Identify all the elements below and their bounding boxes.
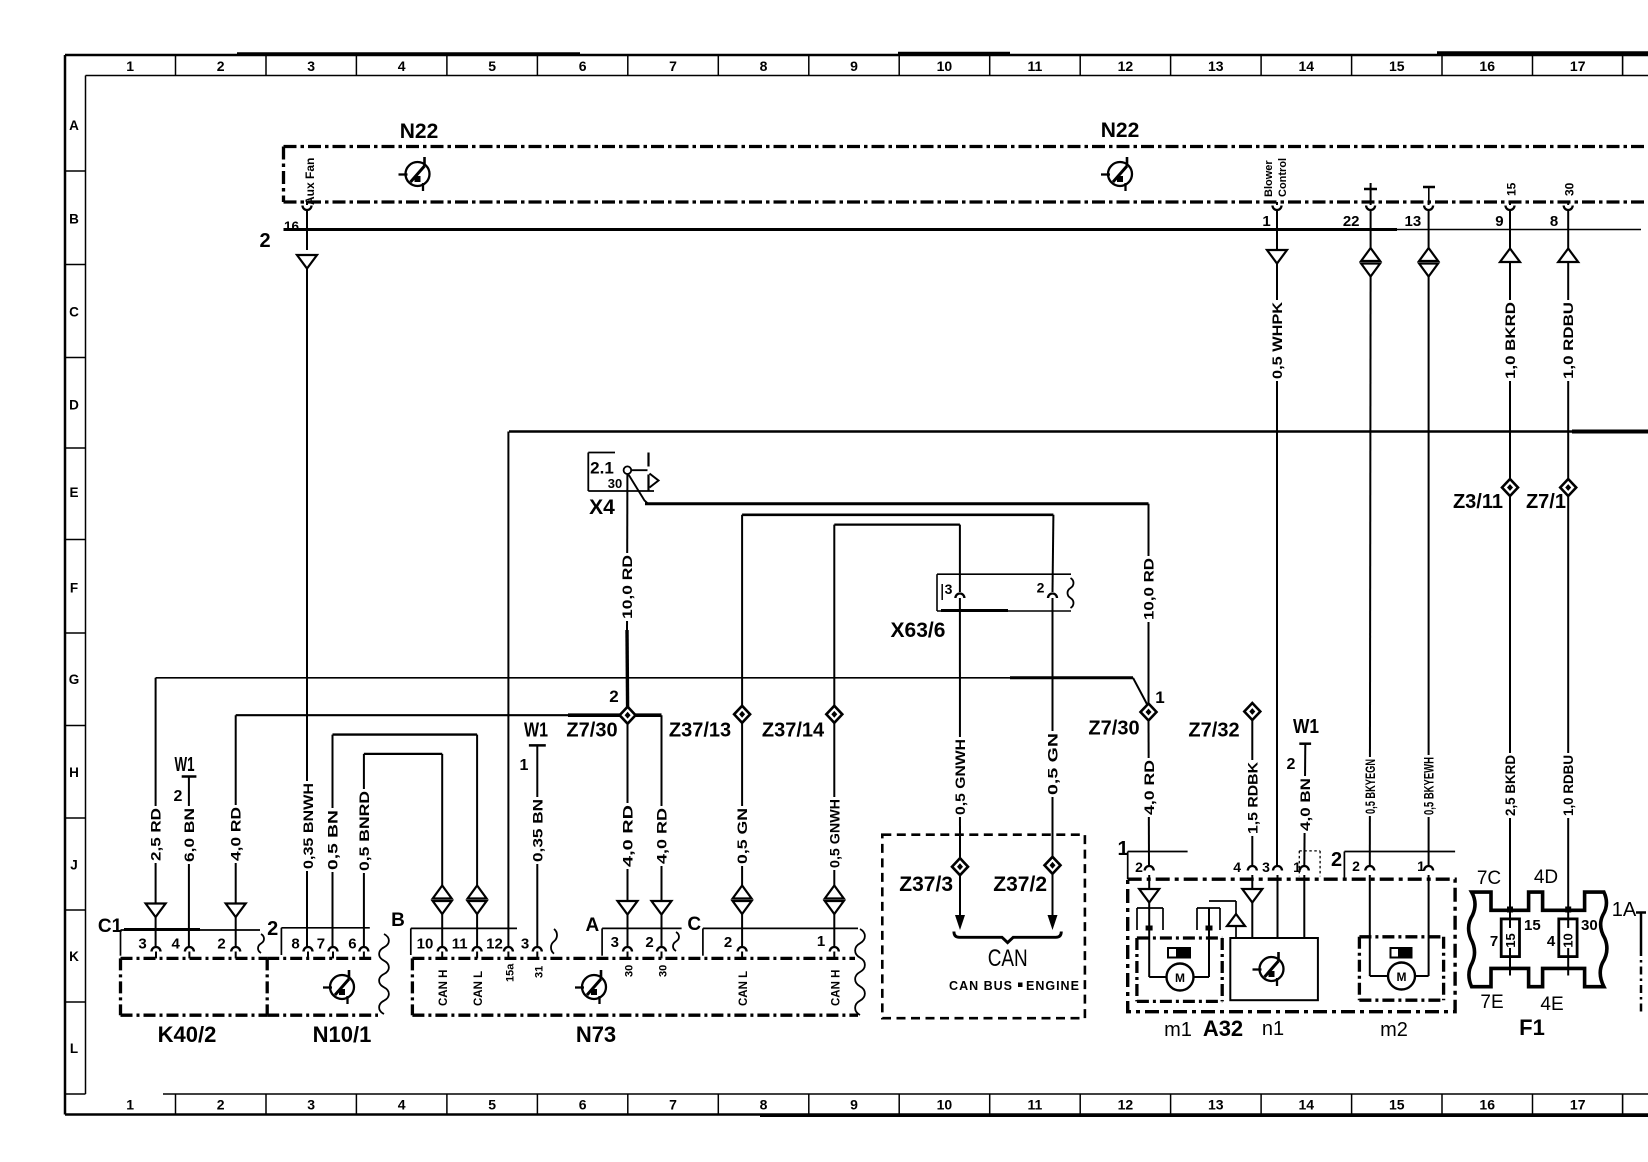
svg-text:Z3/11: Z3/11 [1453,491,1503,513]
svg-text:6: 6 [579,58,587,74]
svg-text:7: 7 [317,936,325,953]
svg-text:X4: X4 [589,496,615,519]
svg-text:Z7/30: Z7/30 [566,720,617,742]
svg-text:N10/1: N10/1 [313,1022,372,1047]
svg-text:CAN L: CAN L [738,971,750,1006]
svg-text:9: 9 [850,1097,858,1113]
svg-text:4: 4 [398,1097,406,1113]
svg-text:Z7/32: Z7/32 [1188,720,1239,742]
svg-text:N73: N73 [576,1022,616,1047]
svg-text:2: 2 [174,788,183,805]
svg-text:30: 30 [1563,182,1577,196]
svg-text:30: 30 [1581,917,1598,934]
svg-text:3: 3 [1262,859,1270,875]
svg-text:15a: 15a [505,963,517,982]
svg-text:16: 16 [284,219,300,234]
svg-text:1,0 RDBU: 1,0 RDBU [1561,302,1576,379]
svg-text:2: 2 [1331,849,1342,871]
svg-text:C1: C1 [98,916,123,937]
svg-text:G: G [69,672,80,687]
svg-text:8: 8 [1550,213,1558,230]
svg-text:7: 7 [1490,933,1498,950]
svg-text:F1: F1 [1519,1015,1545,1040]
svg-text:CAN H: CAN H [438,970,450,1006]
svg-text:0,5 GN: 0,5 GN [1046,733,1061,795]
svg-text:2: 2 [1352,858,1360,874]
svg-text:3: 3 [307,1097,315,1113]
svg-text:A: A [69,118,79,133]
svg-text:15: 15 [1389,58,1405,74]
svg-text:1: 1 [1155,688,1164,707]
svg-text:M: M [1397,970,1407,984]
svg-text:E: E [69,485,78,500]
svg-text:D: D [69,398,79,413]
svg-text:Z7/30: Z7/30 [1088,718,1139,740]
svg-text:22: 22 [1343,213,1360,230]
svg-text:0,35 BN: 0,35 BN [530,799,545,862]
svg-text:14: 14 [1299,58,1315,74]
svg-text:12: 12 [1118,1097,1134,1113]
svg-text:4E: 4E [1540,994,1563,1015]
svg-text:9: 9 [850,58,858,74]
svg-text:2: 2 [217,936,225,953]
svg-text:K40/2: K40/2 [158,1022,217,1047]
svg-text:16: 16 [1479,58,1495,74]
svg-text:2: 2 [1287,756,1296,773]
svg-text:10: 10 [417,936,434,953]
svg-text:4: 4 [1233,859,1241,875]
svg-text:0,5 BN: 0,5 BN [326,810,341,870]
svg-text:4D: 4D [1534,867,1558,888]
svg-text:7E: 7E [1480,992,1503,1013]
svg-text:8: 8 [760,58,768,74]
svg-text:0,5 BKYEWH: 0,5 BKYEWH [1422,757,1437,815]
svg-text:10: 10 [937,58,953,74]
svg-text:L: L [70,1041,78,1056]
svg-text:Blower: Blower [1263,160,1275,197]
svg-text:X63/6: X63/6 [891,619,946,642]
svg-text:3: 3 [521,936,529,953]
svg-text:W1: W1 [524,720,548,742]
svg-text:10,0 RD: 10,0 RD [620,555,635,619]
svg-text:30: 30 [658,965,670,977]
svg-text:2: 2 [609,687,618,706]
svg-text:1: 1 [520,757,529,774]
svg-text:2: 2 [724,934,732,951]
svg-text:N22: N22 [1101,119,1140,142]
svg-text:F: F [70,581,78,596]
svg-text:10: 10 [1561,933,1576,947]
svg-text:2: 2 [645,934,653,951]
svg-text:ENGINE: ENGINE [1026,979,1080,993]
svg-text:K: K [69,949,79,964]
svg-text:11: 11 [1027,1097,1042,1113]
svg-text:M: M [1175,971,1185,985]
svg-text:A32: A32 [1203,1016,1243,1041]
svg-text:0,5 WHPK: 0,5 WHPK [1270,302,1285,379]
svg-text:CAN: CAN [988,945,1028,972]
svg-text:2: 2 [217,1097,225,1113]
svg-text:13: 13 [1208,58,1224,74]
svg-text:CAN BUS: CAN BUS [949,979,1013,993]
svg-text:3: 3 [945,581,953,597]
svg-text:0,5 GN: 0,5 GN [735,808,750,864]
svg-text:9: 9 [1495,213,1503,230]
svg-text:6: 6 [348,936,356,953]
svg-text:1,0 RDBU: 1,0 RDBU [1561,755,1576,816]
svg-text:2: 2 [259,230,270,252]
svg-text:2: 2 [1135,859,1143,875]
svg-text:15: 15 [1503,933,1518,947]
svg-text:5: 5 [488,58,496,74]
svg-text:N22: N22 [400,120,439,143]
svg-text:4,0 RD: 4,0 RD [229,807,244,861]
svg-text:2,5 RD: 2,5 RD [149,808,164,861]
svg-text:4: 4 [172,936,181,953]
svg-text:J: J [70,858,78,873]
svg-text:17: 17 [1570,58,1586,74]
svg-text:4,0 RD: 4,0 RD [621,805,636,867]
svg-text:4: 4 [398,58,406,74]
svg-text:3: 3 [138,936,146,953]
svg-text:7: 7 [669,1097,677,1113]
svg-text:C: C [69,305,79,320]
svg-text:1: 1 [1262,213,1270,230]
svg-text:Control: Control [1277,158,1289,197]
svg-text:12: 12 [486,936,503,953]
svg-text:1: 1 [126,1097,134,1113]
svg-text:7: 7 [669,58,677,74]
svg-text:0,35 BNWH: 0,35 BNWH [301,783,316,869]
svg-text:C: C [687,914,701,935]
svg-text:W1: W1 [1293,716,1319,738]
svg-text:30: 30 [608,476,622,491]
svg-text:8: 8 [291,936,299,953]
svg-text:Z37/3: Z37/3 [899,873,953,896]
svg-text:2.1: 2.1 [590,459,614,478]
svg-text:0,5 GNWH: 0,5 GNWH [827,799,842,868]
svg-text:14: 14 [1299,1097,1315,1113]
svg-text:m1: m1 [1164,1019,1192,1041]
svg-text:4,0 RD: 4,0 RD [655,808,670,864]
svg-text:4,0 RD: 4,0 RD [1142,760,1157,815]
svg-text:7C: 7C [1477,868,1501,889]
svg-text:B: B [69,212,79,227]
svg-text:2: 2 [1037,580,1045,596]
svg-text:12: 12 [1118,58,1134,74]
svg-text:4: 4 [1547,933,1556,950]
svg-text:1A: 1A [1612,899,1637,921]
svg-text:1,0 BKRD: 1,0 BKRD [1503,302,1518,379]
svg-text:10,0 RD: 10,0 RD [1142,558,1157,620]
svg-text:1: 1 [1417,858,1425,874]
svg-text:1,5 RDBK: 1,5 RDBK [1245,762,1260,834]
svg-text:13: 13 [1208,1097,1224,1113]
svg-text:6,0 BN: 6,0 BN [182,808,197,862]
svg-text:CAN L: CAN L [473,971,485,1006]
svg-text:13: 13 [1405,213,1422,230]
svg-text:H: H [69,765,79,780]
svg-text:0,5 GNWH: 0,5 GNWH [953,739,968,815]
svg-text:6: 6 [579,1097,587,1113]
svg-text:10: 10 [937,1097,953,1113]
svg-text:15: 15 [1505,182,1519,196]
svg-text:m2: m2 [1380,1019,1408,1041]
svg-text:0,5 BKYEGN: 0,5 BKYEGN [1363,759,1378,814]
svg-text:2,5 BKRD: 2,5 BKRD [1503,755,1518,816]
svg-text:CAN H: CAN H [830,970,842,1006]
svg-text:1: 1 [817,933,825,950]
svg-text:31: 31 [534,966,546,978]
svg-text:5: 5 [488,1097,496,1113]
svg-text:11: 11 [1027,58,1042,74]
svg-text:11: 11 [452,936,468,953]
svg-text:4,0 BN: 4,0 BN [1298,778,1313,831]
svg-text:8: 8 [760,1097,768,1113]
svg-text:Z37/13: Z37/13 [669,720,731,742]
svg-text:3: 3 [611,934,619,951]
svg-text:B: B [391,910,405,931]
svg-text:W1: W1 [175,754,195,776]
svg-text:1: 1 [126,58,134,74]
svg-text:16: 16 [1479,1097,1495,1113]
svg-text:Z7/1: Z7/1 [1526,491,1566,513]
svg-text:Aux Fan: Aux Fan [303,158,317,205]
svg-text:A: A [586,915,600,936]
svg-text:30: 30 [624,965,636,977]
svg-text:15: 15 [1389,1097,1405,1113]
svg-text:0,5 BNRD: 0,5 BNRD [357,791,372,871]
svg-text:17: 17 [1570,1097,1586,1113]
svg-text:2: 2 [267,918,278,940]
svg-text:15: 15 [1524,917,1541,934]
svg-text:3: 3 [307,58,315,74]
svg-text:Z37/2: Z37/2 [993,873,1047,896]
svg-text:2: 2 [217,58,225,74]
svg-text:n1: n1 [1262,1018,1284,1040]
svg-text:Z37/14: Z37/14 [762,720,825,742]
